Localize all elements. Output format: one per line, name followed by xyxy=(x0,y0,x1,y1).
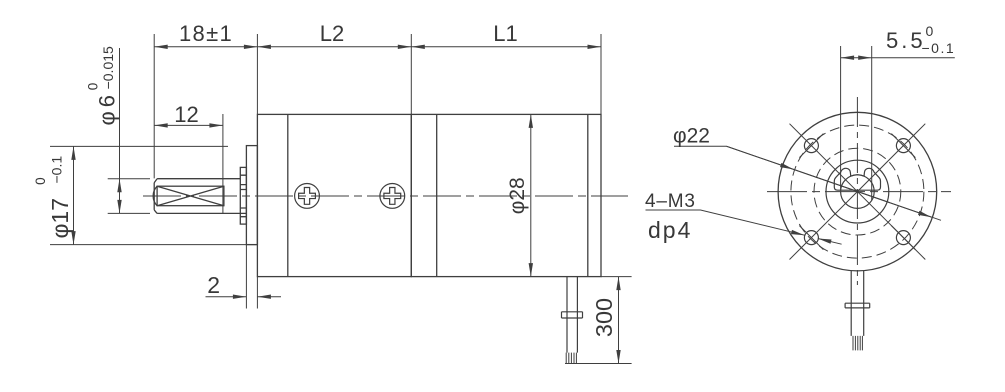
svg-text:−0.015: −0.015 xyxy=(100,46,116,89)
svg-text:2: 2 xyxy=(207,272,220,298)
cable band front xyxy=(845,303,870,308)
hole top-right xyxy=(891,134,915,158)
dim phi17 ext lines xyxy=(50,146,258,244)
svg-text:−0.1: −0.1 xyxy=(922,40,956,56)
motor rear seam xyxy=(587,114,589,276)
flange plate xyxy=(246,146,257,245)
dim phi28 line xyxy=(530,114,532,276)
screw 1 xyxy=(295,184,320,209)
diagonal centerline NE-SW xyxy=(790,124,926,260)
svg-text:4–M3: 4–M3 xyxy=(645,191,696,212)
shaft xyxy=(153,179,240,214)
ext line gearbox front xyxy=(256,34,258,114)
ext line motor rear xyxy=(600,34,602,114)
dim 18±1 line xyxy=(154,46,257,48)
cable band side xyxy=(562,312,583,318)
svg-text:0: 0 xyxy=(33,177,48,185)
dim 2 ext lines xyxy=(246,245,257,309)
dim 300 ext xyxy=(565,277,632,364)
svg-text:0: 0 xyxy=(926,23,934,39)
cable front view xyxy=(851,271,864,336)
crown hub outline xyxy=(834,168,880,190)
svg-text:300: 300 xyxy=(591,298,617,337)
svg-text:18±1: 18±1 xyxy=(179,21,233,46)
phi22 leader xyxy=(674,146,941,220)
outer flange circle xyxy=(778,112,937,271)
svg-text:12: 12 xyxy=(174,102,198,127)
bearing ring xyxy=(240,167,246,224)
dim L2 line xyxy=(257,46,411,48)
wire strands side xyxy=(566,353,576,364)
dim phi17 line xyxy=(73,146,75,244)
dim 300 line xyxy=(618,277,620,364)
dim L1 line xyxy=(411,46,601,48)
hole top-left xyxy=(799,134,823,158)
ext line gearbox/motor joint xyxy=(410,34,412,114)
centerline horizontal xyxy=(767,191,951,193)
svg-text:dp4: dp4 xyxy=(648,217,692,243)
shaft flat (knurl cross) xyxy=(157,186,224,206)
bolt circle dashed xyxy=(791,125,924,258)
dim phi6 line xyxy=(119,48,121,179)
hole bottom-left xyxy=(799,226,823,250)
centerline side view xyxy=(143,195,628,197)
gearbox seam xyxy=(287,114,289,276)
centerline vertical xyxy=(856,97,858,285)
wire strands front xyxy=(853,336,862,351)
ext line shaft end xyxy=(153,34,155,178)
inner dashed circle xyxy=(814,148,901,235)
4-M3 leader xyxy=(646,210,805,235)
boss circle xyxy=(826,160,889,223)
dim phi6 ext lines xyxy=(108,179,150,214)
screw 2 xyxy=(380,184,405,209)
dim 2 arrows xyxy=(206,296,247,298)
svg-text:φ28: φ28 xyxy=(506,177,529,214)
dim 12 xyxy=(222,114,224,213)
motor front seam xyxy=(436,114,438,276)
svg-text:L1: L1 xyxy=(493,21,517,46)
shaft circle xyxy=(841,175,875,209)
svg-text:φ6: φ6 xyxy=(95,91,120,126)
dim 5.5 ext lines xyxy=(841,46,872,200)
diagonal centerline NW-SE xyxy=(790,124,926,260)
svg-text:φ17: φ17 xyxy=(47,198,73,239)
dim 5.5 line xyxy=(841,57,872,59)
svg-text:φ22: φ22 xyxy=(673,125,710,148)
svg-text:L2: L2 xyxy=(320,21,344,46)
svg-text:0: 0 xyxy=(86,83,101,91)
svg-text:−0.1: −0.1 xyxy=(49,156,65,184)
cable side view xyxy=(567,277,577,353)
hole bottom-right xyxy=(891,226,915,250)
svg-text:5.5: 5.5 xyxy=(886,28,926,53)
gearbox body xyxy=(257,114,411,276)
motor body xyxy=(411,114,601,276)
